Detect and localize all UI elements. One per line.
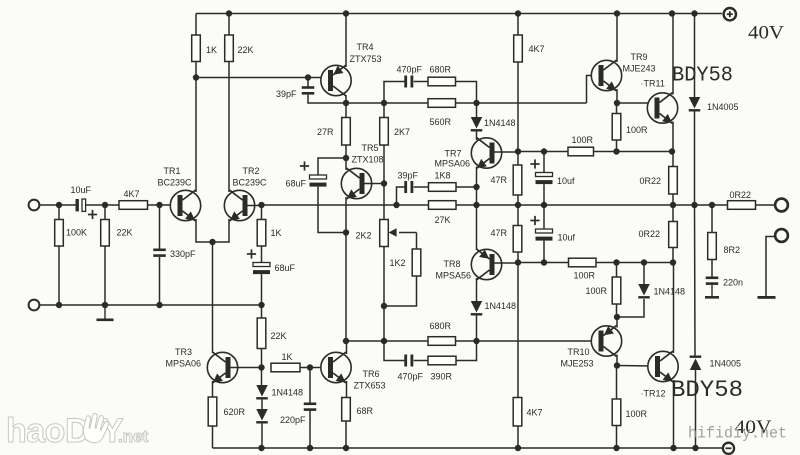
svg-text:hifidiy.net: hifidiy.net (688, 425, 787, 443)
label 8R2 (724, 245, 741, 255)
wire TR10 emitter to TR12 base (617, 365, 652, 368)
diode 1N4148 TR7 (471, 117, 483, 132)
wire 0R22 to output terminal (756, 204, 775, 206)
wire TR2 base feedback line (262, 204, 397, 206)
resistor 47R lower (513, 226, 522, 253)
resistor 68R (342, 398, 351, 422)
wire TR3 base to diodes (261, 368, 263, 387)
transistor TR11 (647, 93, 677, 124)
wire TR4 emitter to rail (345, 14, 347, 68)
junction TR7 base node (515, 148, 521, 154)
junction TR1 base node (156, 202, 162, 208)
junction TR10 collector node (614, 314, 620, 320)
label MJE253 (561, 359, 594, 369)
svg-text:470pF: 470pF (397, 65, 423, 75)
svg-text:560R: 560R (430, 117, 452, 127)
label 10uF lower (558, 233, 576, 243)
terminal output return (775, 229, 788, 242)
transistor TR3 MPSA06 (207, 352, 237, 383)
label TR11 (641, 79, 665, 89)
terminal input ground (29, 300, 40, 311)
label 100R TR10 (586, 286, 608, 296)
ground symbol output return (758, 296, 776, 299)
svg-text:1N4005: 1N4005 (707, 102, 739, 112)
transistor TR8 MPSA56 (471, 249, 501, 280)
wire 1K TR2 top lead (261, 205, 263, 220)
resistor 100K (55, 220, 64, 247)
label 47R lower (491, 228, 508, 238)
svg-text:BC239C: BC239C (233, 178, 268, 188)
resistor 0R22 lower (669, 222, 678, 248)
svg-text:100R: 100R (586, 286, 608, 296)
resistor 390R (428, 356, 456, 365)
diode 1N4148 bias B (256, 409, 268, 424)
potentiometer 2K2 body (380, 220, 389, 247)
junction 39pF2 node (393, 202, 399, 208)
junction 220pF rail (307, 445, 313, 451)
capacitor 220pF (304, 403, 317, 411)
capacitor 39pF TR4 (302, 86, 315, 94)
wire TR6 base to 220pF (309, 368, 311, 404)
junction 10uF2 TR8 line (541, 259, 547, 265)
transistor TR4 ZTX753 (321, 65, 351, 96)
capacitor 470pF bottom (404, 355, 413, 367)
wire 39pF2 branch (397, 187, 405, 205)
wire TR2 collector (22K) (228, 62, 230, 193)
wire -40V bottom rail (213, 447, 723, 449)
wire 1K to TR1 collector node (195, 62, 197, 78)
wire tail to TR3 collector (212, 242, 214, 353)
svg-text:620R: 620R (224, 407, 246, 417)
junction TR6 base node (307, 364, 313, 370)
wire 2K7 bottom lead (383, 145, 385, 184)
junction 100Ra bottom (613, 148, 619, 154)
transistor TR9 MJE243 (591, 60, 621, 91)
junction on +40V rail x=694.5 (691, 10, 697, 16)
junction output 8R2 (709, 202, 715, 208)
junction on +40V rail x=617 (614, 10, 620, 16)
wire 680R bottom line (346, 340, 428, 342)
junction 39pF top (305, 74, 311, 80)
wire 47R upper to output line (517, 195, 519, 205)
wire 470pF to 680R (414, 81, 428, 83)
wire TR10 emitter down (616, 355, 618, 366)
wire TR6 collector up (346, 341, 348, 354)
transistor TR10 MJE253 (591, 326, 621, 357)
diode 1N4148 TR10 (638, 284, 650, 299)
label 100R TR7 line (572, 135, 594, 145)
wire 2K2 top lead (383, 184, 385, 220)
junction on +40V rail x=672 (669, 10, 675, 16)
wire 100R to TR9 node (594, 151, 673, 153)
watermark haoDIY.net (6, 412, 149, 450)
terminal input signal (29, 200, 40, 211)
label 1K2 (390, 258, 406, 268)
wire 1N4005 bottom to rail (695, 370, 697, 448)
junction emitter tail (209, 239, 215, 245)
label TR1 (164, 166, 181, 176)
label 1K top (206, 45, 217, 55)
junction 27K node (473, 202, 479, 208)
resistor 1K2 (412, 249, 421, 276)
label 100R bottom (626, 409, 648, 419)
wire 100R TR9 top lead (616, 103, 618, 114)
resistor 22K bias (257, 318, 266, 349)
svg-text:TR5: TR5 (362, 143, 379, 153)
resistor 4K7 bottom (513, 398, 522, 427)
svg-text:47R: 47R (491, 228, 508, 238)
svg-text:1K: 1K (206, 45, 217, 55)
plus sign 10uF upper (530, 159, 539, 168)
label 680R bottom (430, 321, 452, 331)
label 220pF (280, 415, 306, 425)
label ZTX108 (352, 155, 384, 165)
wire input ground rail (40, 304, 262, 306)
label BDY58 top (672, 65, 733, 88)
label 1N4148 bias (272, 388, 304, 398)
wire 0R22 lower bottom lead (672, 248, 674, 263)
resistor 100R bottom (612, 399, 621, 426)
svg-text:8R2: 8R2 (724, 245, 741, 255)
wire 10uF1 top lead (543, 152, 545, 173)
wire 10uF1 bottom lead (543, 184, 545, 205)
wire 22K input top lead (104, 205, 106, 220)
junction TR12 emitter rail (670, 445, 676, 451)
wire between bias diodes (261, 400, 263, 410)
wire TR11 collector to rail (672, 14, 674, 95)
label TR12 (641, 389, 666, 399)
junction 1N4005 bottom rail (692, 445, 698, 451)
wire 39pF2 to 1K8 (414, 186, 429, 188)
wire node to 68uF top (318, 158, 346, 175)
svg-text:100R: 100R (626, 125, 648, 135)
wire 22K to rail (228, 14, 230, 36)
svg-text:1N4148: 1N4148 (654, 287, 686, 297)
svg-text:100R: 100R (574, 271, 596, 281)
junction TR6 collector node (343, 338, 349, 344)
junction 2K2/1K2 bottom (381, 303, 387, 309)
wire 8R2 to 220n (711, 260, 713, 278)
junction on +40V rail x=229 (226, 10, 232, 16)
svg-text:MPSA06: MPSA06 (435, 159, 471, 169)
potentiometer 2K2 wiper arrow (389, 228, 417, 236)
svg-text:TR8: TR8 (444, 259, 461, 269)
ground symbol zobel (705, 285, 719, 299)
svg-text:330pF: 330pF (170, 249, 196, 259)
label 2K2 (356, 231, 372, 241)
svg-text:390R: 390R (431, 372, 453, 382)
svg-text:0R22: 0R22 (639, 229, 661, 239)
label TR9 (631, 52, 648, 62)
junction bias diodes rail (258, 445, 264, 451)
svg-text:220pF: 220pF (280, 415, 306, 425)
ground symbol input (97, 305, 114, 321)
label BDY58 bottom (671, 377, 743, 404)
wire diode TR8 to node (476, 316, 478, 342)
svg-text:MJE243: MJE243 (623, 64, 656, 74)
svg-text:TR1: TR1 (164, 166, 181, 176)
label 4K7 bottom (527, 408, 543, 418)
wire 1K to rail (195, 14, 197, 36)
svg-text:TR2: TR2 (243, 166, 260, 176)
label 0R22 lower (639, 229, 661, 239)
label 100R TR9 (626, 125, 648, 135)
resistor 27R (342, 118, 351, 146)
label 27R (317, 127, 334, 137)
label TR4 (357, 42, 374, 52)
resistor 560R (428, 99, 456, 108)
svg-text:1K2: 1K2 (390, 258, 406, 268)
svg-text:·TR11: ·TR11 (641, 79, 665, 89)
wire TR1 collector to TR4 base (196, 77, 327, 79)
wire node to TR9 base riser (477, 102, 587, 104)
label 68uF TR5 (286, 179, 307, 189)
diode 1N4005 bottom (690, 356, 702, 371)
transistor TR5 ZTX108 (341, 168, 371, 199)
svg-text:68uF: 68uF (286, 179, 307, 189)
plus sign input cap (88, 210, 97, 219)
svg-text:10uF: 10uF (71, 185, 92, 195)
wire output line to 47R lower (517, 205, 519, 226)
wire 0R22 lower top lead (672, 205, 674, 222)
label 560R (430, 117, 452, 127)
wire TR8 base node down (517, 263, 519, 398)
plus sign 68uF TR5 (300, 161, 309, 170)
svg-text:MPSA56: MPSA56 (436, 271, 472, 281)
junction 10uF1 output line (541, 202, 547, 208)
svg-text:10uf: 10uf (557, 176, 575, 186)
svg-text:22K: 22K (271, 331, 287, 341)
junction ground rail 100K (56, 302, 62, 308)
label 620R (224, 407, 246, 417)
label 0R22 upper (640, 176, 662, 186)
svg-text:100K: 100K (66, 228, 87, 238)
label MPSA06 TR7 (435, 159, 471, 169)
wire TR5 base lead (365, 183, 385, 185)
svg-text:ZTX753: ZTX753 (350, 54, 382, 64)
capacitor 10uF lower (536, 229, 553, 241)
resistor 100R TR8 line (569, 258, 597, 267)
wire TR9 collector to rail (616, 14, 618, 63)
label 4K7 top middle (529, 44, 545, 54)
label ZTX653 (354, 381, 386, 391)
junction ground rail 330pF (156, 302, 162, 308)
wire 2K7 top lead (383, 103, 385, 118)
capacitor 10uF upper (536, 173, 553, 185)
label 27K (435, 215, 451, 225)
label 470pF top (397, 65, 423, 75)
label 40V bottom (735, 417, 772, 438)
svg-text:TR3: TR3 (175, 347, 192, 357)
capacitor 470pF top (404, 76, 413, 88)
svg-text:0R22: 0R22 (640, 176, 662, 186)
wire TR1 collector (195, 78, 197, 193)
wire 27K right lead (456, 204, 477, 206)
wire 10uF2 bottom lead (543, 241, 545, 263)
svg-text:1N4148: 1N4148 (484, 118, 516, 128)
junction 27R bottom node (343, 155, 349, 161)
wire bias diodes to rail (261, 424, 263, 449)
terminal output hot (775, 199, 788, 212)
wire TR3 base lead (231, 367, 262, 369)
svg-text:4K7: 4K7 (529, 44, 545, 54)
wire 4K7 to TR1 base (148, 204, 178, 206)
svg-text:100R: 100R (572, 135, 594, 145)
svg-text:470pF: 470pF (398, 372, 424, 382)
wire 100K top lead (58, 205, 60, 220)
wire node to TR10 base (477, 340, 598, 342)
label 1N4148 TR8 (485, 301, 517, 311)
label 330pF (170, 249, 196, 259)
svg-text:1K: 1K (282, 352, 293, 362)
junction 680R-bottom left node (381, 338, 387, 344)
junction TR2 base node (258, 202, 264, 208)
wire TR12 emitter to rail (673, 380, 675, 448)
capacitor 220n (706, 277, 719, 285)
junction TR5 base node (381, 180, 387, 186)
svg-text:1N4005: 1N4005 (710, 359, 742, 369)
svg-text:39pF: 39pF (276, 89, 297, 99)
plus sign 68uF TR2 (247, 249, 256, 258)
wire TR12 collector up (673, 263, 675, 354)
plus sign 10uF lower (530, 216, 539, 225)
label 10uF upper (557, 176, 575, 186)
wire 4K7 node to diode (476, 103, 478, 117)
junction 68R rail (343, 445, 349, 451)
label 4K7 input (124, 189, 140, 199)
wire TR2 base lead (247, 205, 262, 207)
svg-text:TR4: TR4 (357, 42, 374, 52)
junction 680R-bottom right node (473, 338, 479, 344)
wire TR7 emitter down (476, 167, 478, 251)
wire 470pF2 to 390R (414, 360, 428, 362)
resistor 1K8 (429, 183, 457, 192)
resistor 47R upper (513, 165, 522, 195)
svg-text:BDY58: BDY58 (671, 377, 743, 404)
resistor 4K7 input (119, 201, 148, 210)
label 1N4148 TR7 (484, 118, 516, 128)
svg-text:·TR12: ·TR12 (641, 389, 666, 399)
junction input/100K (56, 202, 62, 208)
diode 1N4148 bias A (256, 385, 268, 400)
svg-text:TR10: TR10 (568, 347, 590, 357)
wire 1K8 right lead (456, 186, 477, 188)
wire 1K2 bottom lead (384, 276, 417, 306)
resistor 0R22 upper (669, 167, 678, 195)
svg-text:MPSA06: MPSA06 (166, 359, 202, 369)
capacitor 68uF TR2 (253, 263, 270, 275)
resistor 4K7 top middle (514, 35, 523, 62)
svg-text:BC239C: BC239C (158, 178, 193, 188)
resistor 8R2 (708, 233, 717, 260)
watermark hifidiy.net (688, 425, 787, 443)
transistor TR2 BC239C (224, 190, 254, 221)
label 22K input (117, 228, 133, 238)
svg-text:0R22: 0R22 (730, 190, 752, 200)
junction ground rail 22K (102, 302, 108, 308)
wire 100R TR8 line right (596, 262, 673, 264)
resistor 1K TR3-TR6 (271, 363, 300, 372)
junction TR4 collector node (343, 100, 349, 106)
wire TR9 emitter down (616, 89, 618, 103)
wire diode to TR7 collector (476, 132, 478, 141)
wire 22K input bottom lead (104, 246, 106, 305)
junction 22K top (102, 202, 108, 208)
transistor TR1 BC239C (170, 190, 200, 221)
svg-text:68uF: 68uF (275, 263, 296, 273)
junction TR9 emitter node (614, 100, 620, 106)
label 68uF TR2 (275, 263, 296, 273)
junction 1N4148-3 top (641, 259, 647, 265)
label TR2 (243, 166, 260, 176)
label TR8 (444, 259, 461, 269)
label 0R22 output (730, 190, 752, 200)
resistor 27K (429, 201, 457, 210)
label 22K top (238, 45, 254, 55)
wire 27R to TR5 collector (345, 145, 347, 170)
terminal +40V supply (724, 8, 736, 20)
wire 220pF to rail (309, 411, 311, 449)
label TR7 (445, 149, 462, 159)
wire TR6 emitter to 68R (346, 381, 348, 398)
wire 470pF2 branch (384, 341, 405, 361)
wire input to C1 (40, 204, 76, 206)
wire 68uF TR2 to ground rail (261, 274, 263, 305)
wire TR3 emitter to 620R (212, 381, 214, 397)
svg-text:BDY58: BDY58 (672, 65, 733, 88)
resistor 680R top (428, 77, 456, 86)
junction 560R left node (381, 100, 387, 106)
wire 560R right lead (456, 102, 477, 104)
svg-text:68R: 68R (357, 406, 374, 416)
svg-text:4K7: 4K7 (527, 408, 543, 418)
wire 39pF top lead (307, 78, 309, 87)
wire TR5 emitter node down (345, 233, 347, 342)
wire TR7 base to 47R (517, 152, 519, 166)
label 39pF 2 (398, 171, 419, 181)
label 100K (66, 228, 87, 238)
label 1N4005 bottom (710, 359, 742, 369)
wire 390R up to node (456, 341, 477, 361)
label 100R TR8 line (574, 271, 596, 281)
wire TR4 collector (345, 95, 347, 118)
svg-text:100R: 100R (626, 409, 648, 419)
junction 100R bottom rail (613, 445, 619, 451)
svg-text:10uf: 10uf (558, 233, 576, 243)
label MJE243 (623, 64, 656, 74)
svg-text:47R: 47R (491, 175, 508, 185)
wire output return to ground (766, 237, 775, 297)
wire output line (477, 204, 728, 206)
label TR5 (362, 143, 379, 153)
wire 4K7 bottom to rail (517, 426, 519, 448)
junction on +40V rail x=346 (343, 10, 349, 16)
junction 47R output line (515, 202, 521, 208)
label 22K bias (271, 331, 287, 341)
label TR10 (568, 347, 590, 357)
junction 0R22-2 bottom (670, 259, 676, 265)
label MPSA06 TR3 (166, 359, 202, 369)
junction 10uF1 top (541, 148, 547, 154)
wire 100R bottom to rail (616, 426, 618, 449)
svg-text:22K: 22K (238, 45, 254, 55)
label TR6 (363, 369, 380, 379)
wire 100K bottom lead (58, 246, 60, 305)
wire 39pF bottom lead (308, 95, 346, 103)
wire TR5 emitter down (345, 197, 347, 233)
resistor 22K input (101, 220, 110, 247)
resistor 2K7 (380, 118, 389, 146)
